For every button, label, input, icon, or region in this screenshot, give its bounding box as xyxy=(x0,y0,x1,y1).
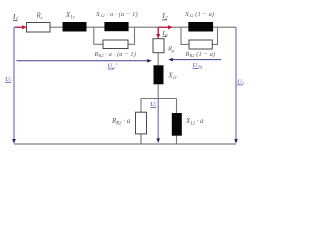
current arrow Imu xyxy=(157,27,159,34)
label Ui xyxy=(150,101,157,109)
label U1 xyxy=(5,76,12,84)
current arrow I2 xyxy=(158,26,168,28)
label U2 xyxy=(237,79,245,87)
wire bottom pair left leg xyxy=(140,99,142,113)
label Umu' xyxy=(108,62,117,70)
wire center column xyxy=(157,27,159,39)
label I1 xyxy=(12,14,18,23)
junction pair2 left leg xyxy=(181,27,189,45)
junction pair1 right leg xyxy=(128,27,135,45)
wire center node to pair2 xyxy=(158,26,188,28)
resistor RR2(1-a) xyxy=(189,40,212,49)
wire pair1 to center node xyxy=(129,26,159,28)
label I2 xyxy=(162,13,169,22)
inductor X12·a·(a-1) xyxy=(104,22,128,31)
resistor Rmu xyxy=(153,39,164,53)
label U2a xyxy=(193,62,203,71)
junction pair1 left leg xyxy=(94,27,103,45)
label Imu xyxy=(162,30,169,39)
inductor X1r xyxy=(154,65,164,84)
voltage arrow Ui xyxy=(157,99,159,139)
svg-text:RR2 (1 − a): RR2 (1 − a) xyxy=(185,51,216,58)
junction pair2 right leg xyxy=(212,27,217,45)
inductor X12·a xyxy=(172,113,182,136)
wire bottom pair top bar xyxy=(141,98,177,100)
resistor RR2·a·(a-1) xyxy=(103,40,128,49)
resistor RR2·a xyxy=(136,112,147,134)
wire X1s to pair1 xyxy=(87,26,105,28)
wire pair2 to right corner xyxy=(213,26,236,28)
resistor Rs xyxy=(27,23,51,33)
wire bottom pair right leg xyxy=(176,99,178,114)
wire between Rs and X1s xyxy=(50,26,63,28)
voltage arrow U1 xyxy=(13,27,15,139)
voltage arrow Umu' xyxy=(17,60,148,62)
bottom rail xyxy=(14,143,236,145)
voltage arrow U2a xyxy=(173,59,222,61)
inductor X12(1-a) xyxy=(188,22,213,32)
voltage arrow U2 xyxy=(235,27,237,139)
current arrow I1 xyxy=(15,26,23,28)
svg-text:X12 (1 − a): X12 (1 − a) xyxy=(184,11,214,18)
inductor X1s xyxy=(63,22,87,32)
wire top rail left segment xyxy=(14,26,27,28)
